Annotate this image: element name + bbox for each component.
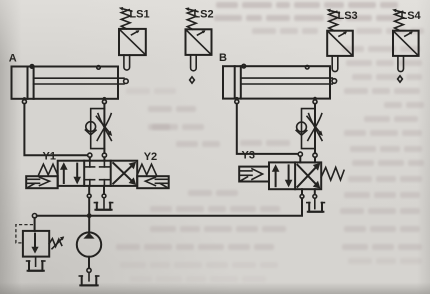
svg-text:LS4: LS4: [401, 10, 422, 22]
solenoid Y3: [239, 167, 269, 182]
node: valve V1 port B: [102, 153, 106, 157]
V1 left position arrows: [60, 162, 81, 184]
pump P1: [77, 232, 101, 256]
tank (V1 T port): [94, 203, 112, 210]
wire: V1 T port to tank: [103, 198, 105, 208]
node: valve V2 port B: [313, 153, 317, 157]
svg-text:Y2: Y2: [144, 151, 157, 163]
flow control valve A (throttle with check bypass): [85, 109, 112, 149]
wire: cylinder A rod port down to flow control A: [103, 104, 105, 153]
pilot line (dashed): [16, 225, 33, 243]
node: cylinder A rod-end port: [102, 97, 106, 104]
svg-text:LS3: LS3: [338, 10, 358, 22]
wire: port A stub: [89, 157, 91, 160]
V2 right position crossed arrows: [297, 163, 320, 189]
cylinder A: [12, 65, 129, 99]
node: cylinder B rod-end port: [313, 97, 317, 104]
V1 centre position blocked ports: [85, 161, 109, 186]
svg-text:LS2: LS2: [193, 9, 213, 21]
LS2 actuator diamond: [190, 77, 195, 83]
tank (V2 T port): [307, 203, 325, 212]
wire: pump suction: [88, 257, 90, 268]
node: valve V2 port A: [298, 152, 302, 156]
node: cylinder B cap-end port: [235, 97, 239, 104]
node: cylinder A cap-end port: [22, 97, 26, 104]
spring (relief, adjustable): [49, 236, 64, 248]
limit switch LS1: [119, 7, 146, 70]
svg-text:LS1: LS1: [129, 8, 149, 20]
wire: cylinder B cap port to valve V2 port A: [237, 104, 298, 154]
wire: pressure line from relief node to V2 P port: [37, 198, 302, 215]
solenoid Y1: [26, 176, 58, 188]
wire: port B stub: [103, 157, 105, 160]
node: pump junction: [87, 213, 92, 218]
relief valve: [23, 231, 49, 257]
tank (pump suction): [79, 276, 98, 285]
directional valve V1 (4/3, double solenoid) body: [58, 161, 138, 186]
wire: V2 T port to tank: [314, 198, 316, 208]
flow control valve B (throttle with check bypass): [296, 109, 323, 149]
wire: V2 port A stub: [299, 156, 301, 162]
spring (V2 right): [321, 167, 344, 180]
wire: cylinder A cap port to valve V1 port A: [24, 104, 87, 156]
limit switch LS3: [326, 9, 353, 72]
wire: V1 P port down to pressure line: [88, 198, 90, 215]
svg-text:Y1: Y1: [43, 150, 56, 162]
limit switch LS4: [392, 9, 419, 72]
svg-text:Y3: Y3: [242, 149, 255, 161]
limit switch LS2: [185, 7, 212, 70]
wire: V2 port B stub: [314, 157, 316, 162]
tank (relief valve): [27, 261, 45, 271]
node: valve V1 port A: [88, 153, 92, 157]
wire: pump to junction: [88, 218, 90, 233]
cylinder B: [223, 64, 337, 98]
LS4 actuator diamond: [398, 76, 403, 82]
node: valve V1 port P: [87, 186, 91, 198]
directional valve V2 (4/2, solenoid + spring) body: [269, 162, 321, 189]
solenoid Y2: [137, 176, 169, 188]
spring (V1 right): [137, 164, 156, 175]
wire: suction into tank: [88, 272, 90, 280]
wire: relief valve riser: [34, 218, 36, 231]
node: valve V2 port P: [300, 189, 304, 198]
wire: cylinder B rod port down to flow control B: [314, 104, 316, 153]
svg-text:A: A: [9, 53, 17, 65]
node: pressure line left end: [32, 214, 36, 218]
wire: relief valve to tank: [35, 257, 37, 267]
node: pump suction: [87, 268, 91, 272]
svg-text:B: B: [219, 52, 227, 64]
node: valve V2 port T: [313, 189, 317, 198]
spring (V1 left): [39, 164, 58, 175]
V1 right position crossed arrows: [113, 162, 136, 185]
V2 left position arrows: [272, 164, 293, 187]
node: valve V1 port T: [102, 186, 106, 198]
bleed-through rows (show-through from reverse page, decorative): [0, 0, 430, 1]
